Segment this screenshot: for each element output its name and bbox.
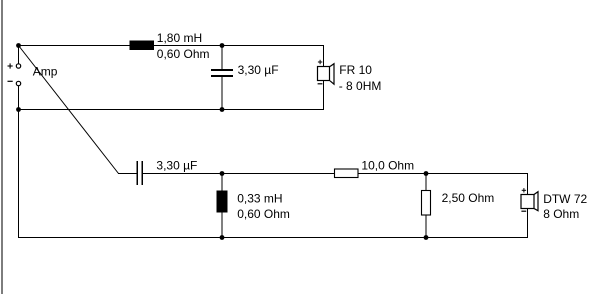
svg-text:0,60 Ohm: 0,60 Ohm: [237, 207, 290, 221]
wire FR10 top vertical: [323, 45, 324, 66]
svg-text:10,0 Ohm: 10,0 Ohm: [361, 158, 414, 172]
amp plus terminal: [16, 64, 20, 68]
wire C1 top vertical: [222, 45, 223, 70]
wire amp plus stub: [18, 45, 19, 64]
inductor L1 body: [130, 41, 155, 51]
wire L2 bottom vertical: [222, 213, 223, 238]
wire diagonal from amp node to mid rail: [19, 46, 119, 174]
node C1 bottom junction: [220, 107, 225, 112]
speaker DTW72 plus sign: [522, 188, 526, 192]
node A amp plus junction: [16, 43, 21, 48]
wire top rail (node A to FR10): [18, 45, 324, 46]
svg-text:2,50 Ohm: 2,50 Ohm: [442, 191, 495, 205]
node R2 bottom junction: [424, 235, 429, 240]
wire bottom rail: [18, 237, 528, 238]
node L2 bottom junction: [220, 235, 225, 240]
svg-text:1,80 mH: 1,80 mH: [157, 31, 202, 45]
speaker FR10 minus sign: [318, 83, 323, 85]
svg-text:- 8 0HM: - 8 0HM: [339, 79, 382, 93]
svg-text:3,30 µF: 3,30 µF: [156, 158, 197, 172]
wire R2 top vertical: [426, 173, 427, 191]
amp minus terminal: [16, 81, 20, 85]
svg-text:0,60 Ohm: 0,60 Ohm: [157, 47, 210, 61]
svg-text:0,33 mH: 0,33 mH: [237, 192, 282, 206]
wire DTW72 top vertical: [527, 173, 528, 194]
inductor L2 body: [217, 191, 228, 213]
node L2 top junction: [220, 171, 225, 176]
capacitor C2 plates: [136, 161, 143, 185]
node C1 top junction: [220, 43, 225, 48]
speaker DTW72 minus sign: [521, 210, 526, 212]
wire R2 bottom vertical: [426, 215, 427, 238]
speaker FR10 symbol: [318, 64, 335, 84]
wire mid rail left of C2: [118, 173, 137, 174]
amp minus sign: [8, 80, 13, 82]
wire top return rail: [18, 109, 324, 110]
node amp minus junction: [16, 107, 21, 112]
svg-text:8 Ohm: 8 Ohm: [543, 207, 579, 221]
resistor R1 body: [335, 169, 359, 178]
wire DTW72 bottom vertical: [527, 209, 528, 238]
speaker FR10 plus sign: [318, 60, 322, 64]
wire C1 bottom vertical: [222, 77, 223, 110]
amp plus sign: [8, 63, 13, 68]
svg-text:Amp: Amp: [33, 65, 58, 79]
svg-text:FR 10: FR 10: [339, 63, 372, 77]
wire mid rail C2 to DTW72: [143, 173, 528, 174]
node R2 top junction: [424, 171, 429, 176]
wire L2 top vertical: [222, 173, 223, 191]
speaker DTW72 symbol: [521, 192, 538, 211]
wire FR10 bottom vertical: [323, 81, 324, 110]
resistor R2 body: [422, 191, 431, 216]
wire amp minus vertical down to bottom rail: [18, 86, 19, 238]
svg-text:3,30 µF: 3,30 µF: [238, 63, 279, 77]
svg-text:DTW 72: DTW 72: [543, 192, 587, 206]
capacitor C1 plates: [211, 69, 233, 77]
